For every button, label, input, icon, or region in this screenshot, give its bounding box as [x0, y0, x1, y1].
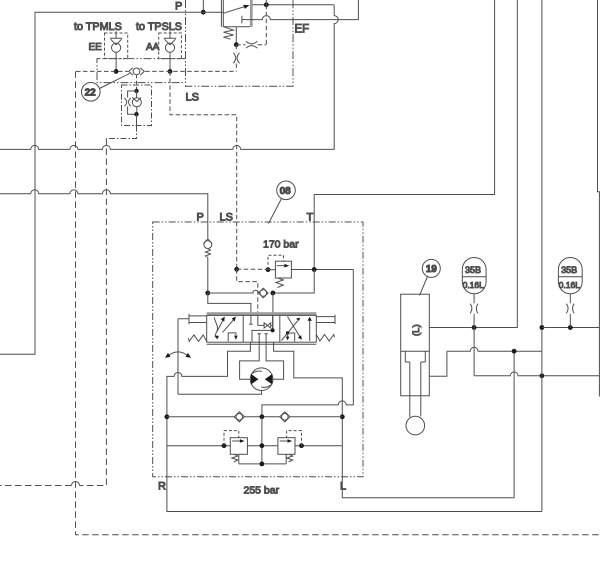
- spool right position arrows: [282, 321, 298, 341]
- spool centre motor ports blocked: [257, 334, 268, 342]
- check valve AA symbol: [164, 31, 176, 45]
- cylinder rod: [410, 362, 421, 417]
- wire T port feed from top right: [314, 0, 494, 270]
- wire accumulator2 drop: [569, 294, 571, 328]
- relief shock left pilot dashed: [224, 431, 239, 446]
- wire bottom line A left: [167, 416, 234, 418]
- svg-text:(L): (L): [411, 324, 422, 336]
- spring relief shock right: [287, 454, 293, 462]
- svg-text:LS: LS: [186, 92, 199, 104]
- wire AA sense dashed branch to steering LS: [170, 71, 237, 269]
- node EE junction: [114, 69, 119, 74]
- spring inlet check: [205, 249, 210, 258]
- node accumulator1 junction: [472, 325, 477, 330]
- wire centre drain drop: [261, 417, 263, 464]
- leader line balloon 19: [420, 277, 428, 296]
- spool valve body 3 positions: [207, 315, 317, 342]
- relief 170 pilot dashed: [268, 255, 283, 270]
- spring relief shock left: [232, 454, 238, 462]
- priority valve flow arrow: [224, 6, 247, 13]
- check valve EE symbol: [110, 31, 122, 45]
- spring spool left: [188, 335, 206, 342]
- balloon 19: [422, 259, 440, 277]
- wire right service from spool: [274, 342, 514, 498]
- svg-text:T: T: [307, 212, 314, 224]
- leader line balloon 08: [269, 199, 282, 224]
- wire right edge line: [598, 0, 600, 397]
- wire accumulator1 drop: [473, 294, 475, 328]
- wire cylinder bottom port: [429, 351, 447, 376]
- accumulator 35B first: [462, 258, 486, 294]
- balloon 22: [82, 83, 101, 102]
- svg-text:0.16L: 0.16L: [463, 280, 485, 290]
- svg-text:08: 08: [280, 186, 292, 197]
- wire P supply from top edge: [202, 0, 204, 12]
- wire shuttle dashed line: [76, 70, 236, 72]
- wire line3 to right edge with hop: [474, 372, 599, 376]
- wire LS dashed to relief and spool: [237, 269, 266, 312]
- priority valve U-left box: [221, 0, 250, 27]
- wire EF return vertical with hop over pilot: [334, 5, 338, 150]
- wire line2 with hop: [447, 347, 542, 351]
- priority valve gray bar: [250, 0, 253, 27]
- relief valve shock right body: [278, 438, 295, 455]
- metering motor arrows: [251, 374, 259, 385]
- check valve anticavitation left: [234, 412, 244, 422]
- orifice bypass: [124, 98, 130, 106]
- wire motor shaft feedback: [178, 391, 262, 395]
- svg-text:EF: EF: [295, 24, 310, 36]
- node T junction: [312, 267, 317, 272]
- node P-T suction junction: [271, 291, 276, 296]
- svg-text:L: L: [340, 481, 346, 493]
- actuator plate right: [316, 315, 335, 324]
- wire drain dashed vertical left: [76, 71, 600, 534]
- node LS junction: [234, 267, 239, 272]
- wire accumulator1 branch down: [473, 328, 475, 376]
- spool valve bottom rail: [207, 343, 317, 345]
- node P junction lower: [205, 291, 210, 296]
- node left service junction: [165, 414, 170, 419]
- wire motor yoke right: [266, 342, 284, 379]
- wire P node to suction check with hop: [208, 290, 259, 293]
- wire dashed pilot drop from EF node: [265, 5, 267, 45]
- node R line1 junction: [540, 325, 545, 330]
- cylinder 19 body: [401, 294, 430, 396]
- cylinder piston: [401, 351, 430, 362]
- priority valve pilot tick: [241, 16, 243, 23]
- check valve anticavitation right: [280, 412, 290, 422]
- wire AA check to shuttle line: [169, 52, 171, 71]
- relief valve shock left body: [230, 438, 247, 455]
- wire drain dashed vertical mid: [0, 139, 106, 486]
- svg-text:R: R: [158, 481, 166, 493]
- node bypass top junction: [134, 89, 138, 93]
- svg-text:EE: EE: [89, 42, 103, 53]
- wire T drain to bottom checks with hop: [262, 270, 353, 417]
- actuator plate left: [178, 314, 207, 324]
- wire dashed orifice connections: [235, 45, 237, 72]
- svg-text:to TPSLS: to TPSLS: [136, 21, 182, 33]
- spring spool right: [316, 335, 334, 342]
- cylinder rod ball end: [406, 416, 425, 435]
- metering motor circle: [250, 368, 273, 391]
- wire EF return long horizontal with hops: [0, 145, 335, 149]
- wire EE check to shuttle line: [115, 52, 117, 71]
- wire line1 right: [542, 327, 600, 329]
- wire relief shock left outlet: [238, 454, 240, 464]
- wire T suction branch: [273, 270, 314, 294]
- wire bypass orifice branch: [128, 91, 137, 114]
- orifice vertical below LS pilot node: [233, 53, 239, 64]
- spool left position arrows: [214, 317, 217, 337]
- spool centre LS drain path: [252, 315, 273, 342]
- node centre junction: [271, 328, 275, 332]
- wire motor yoke left: [240, 342, 260, 379]
- node AA junction: [168, 69, 173, 74]
- steering wheel arc: [168, 352, 189, 357]
- wire bottom line C: [239, 463, 286, 465]
- wire relief inlet stub: [266, 269, 276, 271]
- svg-text:LS: LS: [220, 212, 233, 224]
- spool valve gray mounting bar: [207, 312, 317, 315]
- svg-text:P: P: [175, 1, 182, 13]
- orifice accumulator2: [566, 304, 574, 314]
- wire left service from spool: [167, 342, 542, 511]
- wire P check to P node: [207, 257, 209, 293]
- svg-text:35B: 35B: [561, 265, 577, 275]
- leader line balloon 22: [100, 74, 130, 89]
- wire dashed LS pilot horizontal: [236, 44, 266, 46]
- wire bottom line A right: [290, 416, 342, 418]
- node line B right junction: [299, 443, 304, 448]
- node line B left junction: [222, 443, 227, 448]
- relief valve 170bar body: [275, 261, 291, 278]
- shuttle valve symbol: [133, 68, 140, 75]
- check valve EE dashed enclosure: [105, 33, 128, 59]
- node accumulator2 junction: [568, 325, 573, 330]
- wire EF pilot line with hop: [242, 0, 359, 20]
- wire P horizontal to priority valve: [0, 12, 223, 354]
- assembly 22 dash-dot enclosure: [97, 59, 186, 83]
- steering section 08 dash-dot boundary: [153, 222, 363, 477]
- wire relief shock right outlet: [285, 454, 287, 464]
- svg-text:35B: 35B: [465, 265, 481, 275]
- wire P node drop to spool: [208, 293, 251, 312]
- node line B centre junction: [260, 443, 265, 448]
- orifice centre position: [264, 323, 271, 328]
- svg-text:0.16L: 0.16L: [559, 280, 581, 290]
- node line C junction: [260, 462, 265, 467]
- wire R return vertical from top: [541, 0, 543, 512]
- wire cylinder top port line1 left: [429, 0, 517, 328]
- node line2 junction: [512, 349, 517, 354]
- check valve bypass: [132, 91, 141, 102]
- relief shock right pilot dashed: [287, 431, 302, 446]
- priority valve spring: [224, 27, 234, 39]
- node LS net dash-dot vertical from top: [186, 0, 294, 86]
- steering column: [177, 319, 179, 395]
- svg-text:AA: AA: [146, 42, 160, 53]
- node relief 170 inlet junction: [266, 267, 271, 272]
- check valve suction diamond: [259, 288, 269, 298]
- wire bottom line B: [167, 445, 342, 447]
- balloon 08: [277, 181, 296, 200]
- spring relief 170: [276, 278, 283, 288]
- spool centre position blocked ports: [249, 315, 253, 324]
- wire shuttle output to bypass assembly: [136, 75, 138, 91]
- orifice horizontal in LS pilot: [246, 41, 257, 48]
- wire EF output stub to top edge: [265, 0, 267, 5]
- wire priority valve spring port down: [235, 27, 237, 45]
- node line3 R junction: [540, 373, 545, 378]
- wire bypass outlet to drain: [136, 114, 138, 125]
- check valve AA dashed enclosure: [159, 33, 182, 59]
- node LS pilot junction: [234, 42, 239, 47]
- svg-text:to TPMLS: to TPMLS: [74, 21, 122, 33]
- wire bottom line A centre: [244, 416, 279, 418]
- wire relief 170 outlet to T: [291, 269, 353, 271]
- wire EF output top: [253, 4, 334, 6]
- bypass assembly dash-dot enclosure: [122, 85, 152, 126]
- node P junction: [201, 10, 206, 15]
- wire suction node into spool: [272, 293, 274, 330]
- svg-text:170 bar: 170 bar: [263, 239, 299, 251]
- svg-text:255 bar: 255 bar: [244, 485, 280, 497]
- node right service junction A: [340, 414, 345, 419]
- orifice accumulator1: [470, 304, 478, 314]
- svg-text:19: 19: [426, 264, 438, 275]
- wire P line 2 long horizontal with hops: [0, 190, 208, 239]
- node bypass bottom junction: [134, 112, 138, 116]
- check valve inlet P: [203, 239, 212, 244]
- svg-text:P: P: [197, 212, 204, 224]
- svg-text:22: 22: [85, 88, 97, 99]
- node EF output junction: [264, 2, 269, 7]
- accumulator 35B second: [558, 258, 582, 294]
- node line A centre junction: [260, 414, 265, 419]
